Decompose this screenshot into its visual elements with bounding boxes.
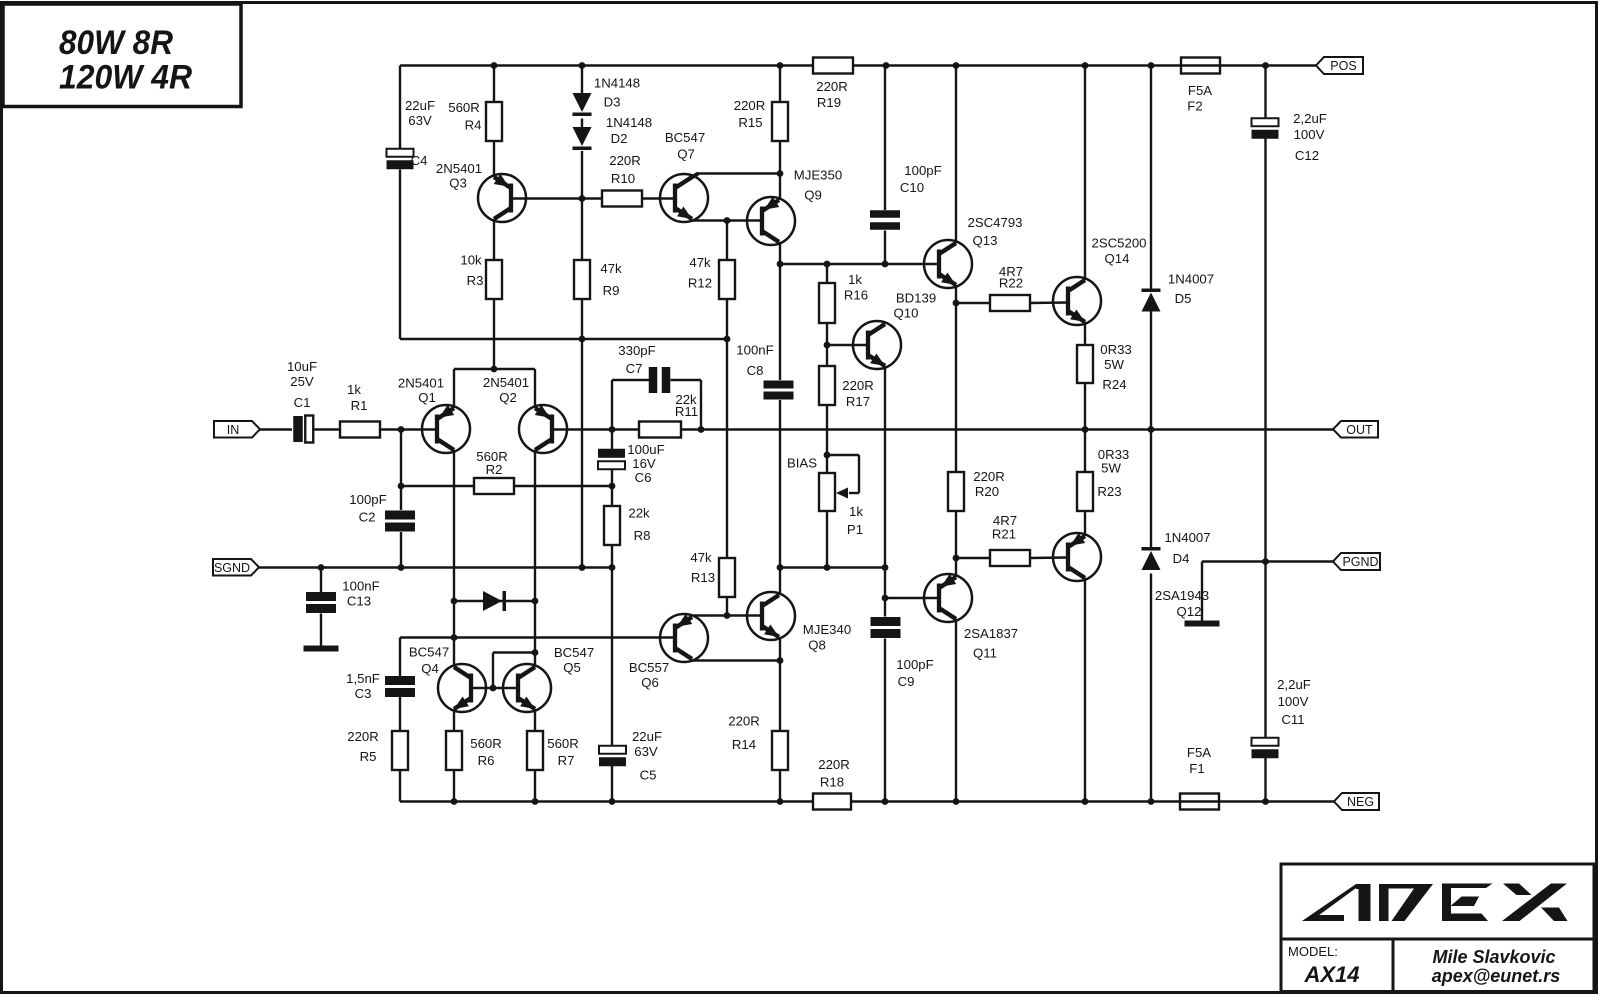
svg-text:IN: IN <box>227 423 240 437</box>
svg-text:POS: POS <box>1330 59 1356 73</box>
svg-text:47k: 47k <box>600 261 622 276</box>
svg-text:100nF: 100nF <box>342 579 379 594</box>
svg-text:22uF: 22uF <box>405 98 435 113</box>
svg-text:C11: C11 <box>1281 712 1304 727</box>
svg-text:Q3: Q3 <box>449 176 467 191</box>
svg-text:R6: R6 <box>478 753 495 768</box>
svg-text:P1: P1 <box>847 522 863 537</box>
svg-text:C5: C5 <box>640 768 657 783</box>
svg-text:MJE350: MJE350 <box>794 168 842 183</box>
svg-text:47k: 47k <box>690 550 712 565</box>
svg-text:C2: C2 <box>359 510 376 525</box>
svg-text:F5A: F5A <box>1187 745 1211 760</box>
svg-text:R19: R19 <box>817 95 841 110</box>
svg-text:R18: R18 <box>820 775 844 790</box>
svg-text:R11: R11 <box>675 404 698 419</box>
svg-text:MODEL:: MODEL: <box>1288 944 1338 959</box>
svg-text:R17: R17 <box>846 394 870 409</box>
svg-text:2SC5200: 2SC5200 <box>1092 236 1147 251</box>
svg-text:R3: R3 <box>467 273 484 288</box>
svg-text:R15: R15 <box>738 115 762 130</box>
svg-text:BC547: BC547 <box>554 645 594 660</box>
svg-text:220R: 220R <box>728 714 760 729</box>
svg-text:560R: 560R <box>547 736 579 751</box>
svg-text:F5A: F5A <box>1188 83 1212 98</box>
svg-text:63V: 63V <box>408 113 432 128</box>
svg-text:220R: 220R <box>734 98 766 113</box>
svg-text:100nF: 100nF <box>736 343 773 358</box>
svg-text:100pF: 100pF <box>904 163 941 178</box>
svg-text:Q6: Q6 <box>641 675 659 690</box>
svg-text:R16: R16 <box>844 288 868 303</box>
svg-text:1N4148: 1N4148 <box>594 76 640 91</box>
svg-text:220R: 220R <box>818 757 850 772</box>
svg-text:560R: 560R <box>470 736 502 751</box>
svg-text:220R: 220R <box>816 79 848 94</box>
svg-text:R5: R5 <box>360 749 377 764</box>
svg-text:100pF: 100pF <box>349 492 386 507</box>
svg-text:2,2uF: 2,2uF <box>1277 677 1311 692</box>
svg-text:16V: 16V <box>632 456 656 471</box>
svg-text:BC557: BC557 <box>629 660 669 675</box>
svg-text:Q5: Q5 <box>563 660 581 675</box>
svg-text:R20: R20 <box>975 484 999 499</box>
svg-text:Q14: Q14 <box>1105 251 1130 266</box>
svg-text:2N5401: 2N5401 <box>483 375 529 390</box>
svg-text:Q8: Q8 <box>808 638 826 653</box>
svg-text:D3: D3 <box>604 95 621 110</box>
svg-text:BC547: BC547 <box>665 130 705 145</box>
svg-text:220R: 220R <box>973 469 1005 484</box>
svg-text:R22: R22 <box>999 276 1023 291</box>
svg-text:220R: 220R <box>347 729 379 744</box>
svg-text:R9: R9 <box>603 283 620 298</box>
svg-text:Q4: Q4 <box>421 661 439 676</box>
svg-text:63V: 63V <box>634 744 658 759</box>
svg-text:10k: 10k <box>460 253 482 268</box>
svg-text:R12: R12 <box>688 276 712 291</box>
svg-text:C13: C13 <box>347 594 371 609</box>
svg-text:Q1: Q1 <box>418 390 436 405</box>
svg-text:330pF: 330pF <box>618 343 655 358</box>
svg-text:80W 8R: 80W 8R <box>59 24 173 62</box>
svg-text:5W: 5W <box>1101 461 1121 476</box>
svg-text:100uF: 100uF <box>627 442 664 457</box>
svg-text:R8: R8 <box>634 528 651 543</box>
svg-text:2SC4793: 2SC4793 <box>968 215 1023 230</box>
svg-text:SGND: SGND <box>214 561 250 575</box>
svg-text:C8: C8 <box>747 363 764 378</box>
svg-text:BD139: BD139 <box>896 291 936 306</box>
svg-text:apex@eunet.rs: apex@eunet.rs <box>1432 966 1561 986</box>
svg-text:C12: C12 <box>1295 148 1319 163</box>
svg-text:Mile Slavkovic: Mile Slavkovic <box>1432 947 1555 967</box>
svg-text:C6: C6 <box>635 470 652 485</box>
svg-text:C7: C7 <box>626 361 643 376</box>
svg-text:R21: R21 <box>992 527 1016 542</box>
svg-text:1,5nF: 1,5nF <box>346 671 380 686</box>
svg-text:220R: 220R <box>842 378 874 393</box>
svg-text:BC547: BC547 <box>409 645 449 660</box>
svg-text:0R33: 0R33 <box>1100 342 1132 357</box>
svg-text:1k: 1k <box>849 504 863 519</box>
svg-text:100pF: 100pF <box>896 657 933 672</box>
svg-text:220R: 220R <box>609 153 641 168</box>
svg-text:PGND: PGND <box>1342 555 1378 569</box>
svg-text:Q11: Q11 <box>973 646 997 661</box>
svg-text:100V: 100V <box>1294 127 1325 142</box>
svg-text:5W: 5W <box>1104 357 1124 372</box>
svg-text:1k: 1k <box>347 382 361 397</box>
svg-text:Q7: Q7 <box>677 147 695 162</box>
svg-text:C10: C10 <box>900 180 924 195</box>
svg-text:100V: 100V <box>1278 694 1309 709</box>
svg-text:C3: C3 <box>355 686 372 701</box>
svg-text:R2: R2 <box>486 462 503 477</box>
svg-text:R13: R13 <box>691 570 715 585</box>
svg-text:R24: R24 <box>1102 377 1126 392</box>
svg-text:R4: R4 <box>465 118 482 133</box>
svg-text:OUT: OUT <box>1346 423 1373 437</box>
svg-text:NEG: NEG <box>1347 795 1374 809</box>
svg-text:2N5401: 2N5401 <box>436 161 482 176</box>
svg-text:2SA1943: 2SA1943 <box>1155 588 1209 603</box>
svg-text:25V: 25V <box>290 374 314 389</box>
svg-text:2SA1837: 2SA1837 <box>964 626 1018 641</box>
svg-text:560R: 560R <box>448 100 480 115</box>
svg-text:22uF: 22uF <box>632 729 662 744</box>
svg-text:22k: 22k <box>628 506 650 521</box>
svg-text:R1: R1 <box>351 398 368 413</box>
svg-text:1k: 1k <box>848 272 862 287</box>
svg-text:BIAS: BIAS <box>787 456 817 471</box>
svg-text:F1: F1 <box>1189 761 1204 776</box>
svg-text:2,2uF: 2,2uF <box>1293 111 1327 126</box>
svg-text:10uF: 10uF <box>287 359 317 374</box>
svg-text:47k: 47k <box>689 255 711 270</box>
svg-text:R7: R7 <box>558 753 575 768</box>
svg-text:D4: D4 <box>1173 551 1190 566</box>
svg-text:F2: F2 <box>1187 99 1202 114</box>
svg-text:1N4148: 1N4148 <box>606 115 652 130</box>
svg-text:2N5401: 2N5401 <box>398 376 444 391</box>
svg-text:R14: R14 <box>732 737 756 752</box>
svg-text:Q13: Q13 <box>973 233 998 248</box>
svg-text:120W 4R: 120W 4R <box>59 59 192 97</box>
svg-text:D2: D2 <box>611 131 628 146</box>
svg-text:Q12: Q12 <box>1177 604 1202 619</box>
svg-text:1N4007: 1N4007 <box>1164 530 1210 545</box>
svg-text:C9: C9 <box>898 674 915 689</box>
svg-text:Q9: Q9 <box>804 188 822 203</box>
svg-text:R23: R23 <box>1097 484 1121 499</box>
svg-text:D5: D5 <box>1175 291 1192 306</box>
svg-text:Q2: Q2 <box>499 390 517 405</box>
svg-text:C4: C4 <box>411 153 428 168</box>
svg-text:MJE340: MJE340 <box>803 622 851 637</box>
svg-text:AX14: AX14 <box>1303 962 1359 987</box>
svg-text:R10: R10 <box>611 171 635 186</box>
svg-text:1N4007: 1N4007 <box>1168 272 1214 287</box>
svg-text:Q10: Q10 <box>894 306 919 321</box>
svg-text:C1: C1 <box>294 395 311 410</box>
